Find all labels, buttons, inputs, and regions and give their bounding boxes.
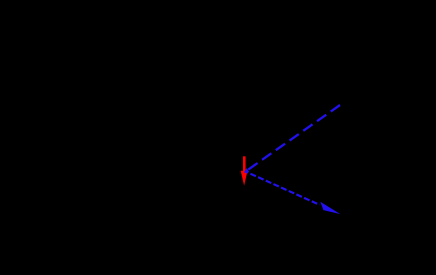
arrowhead of v2 bbox=[320, 202, 340, 214]
delta-v vector (red, pointing down) shaft bbox=[243, 156, 246, 171]
incoming velocity vector v1 (blue dashed, from upper right down-left toward junction) bbox=[248, 105, 340, 170]
arrowhead of v1 at junction (overlaps red arrow) bbox=[244, 168, 249, 173]
delta-v arrowhead bbox=[241, 171, 248, 186]
outgoing velocity vector v2 (blue dashed, from junction to lower right) bbox=[246, 172, 320, 205]
